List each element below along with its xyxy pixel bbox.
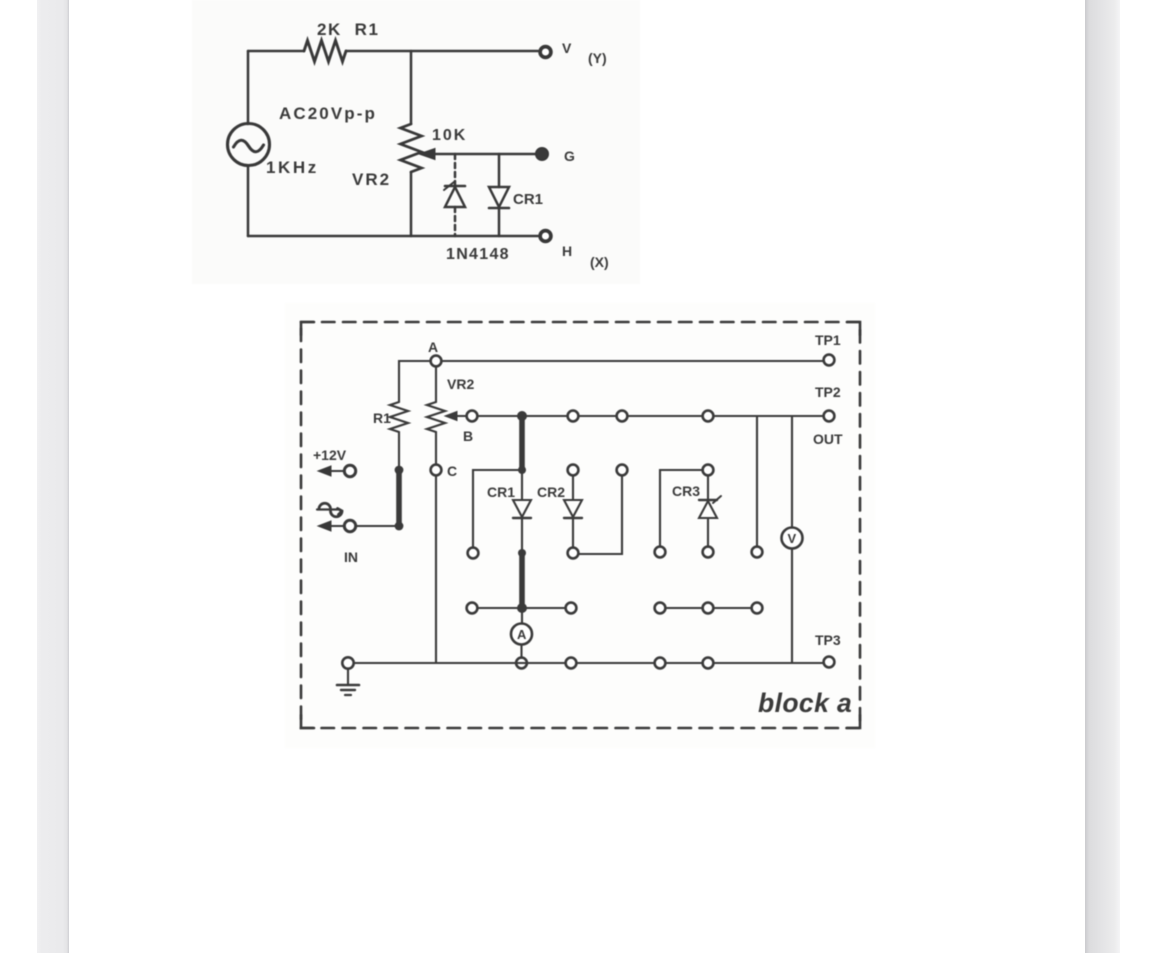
svg-text:10K: 10K [432, 127, 467, 144]
diode CR3 (zener, pointing up) [699, 476, 721, 547]
svg-text:R1: R1 [373, 410, 391, 426]
wire: TP2 rail [478, 415, 824, 417]
svg-text:B: B [463, 428, 473, 444]
junction dot meter row [517, 603, 527, 613]
post right row 2 [703, 603, 714, 614]
wire: VR2 bottom to bottom rail [410, 172, 413, 236]
post CR3 top [703, 465, 714, 476]
wire: node C down to ground rail [435, 476, 437, 663]
svg-text:CR2: CR2 [537, 484, 565, 500]
svg-text:A: A [428, 339, 438, 355]
ground terminal [342, 657, 353, 668]
post on TP2 rail [568, 411, 579, 422]
post on TP2 rail [617, 411, 628, 422]
wire: ground rail TP3 [354, 662, 824, 664]
svg-text:TP2: TP2 [815, 384, 841, 400]
svg-text:2K R1: 2K R1 [317, 20, 380, 39]
diode CR1 [513, 470, 531, 549]
ammeter A [511, 624, 532, 645]
wire: meter row [472, 607, 571, 609]
potentiometer VR2 [427, 402, 445, 432]
svg-text:CR3: CR3 [672, 483, 700, 499]
svg-text:(X): (X) [590, 254, 609, 270]
dashed border of block a [301, 322, 860, 728]
wire: bypass left of CR1 [473, 470, 522, 547]
wire: right row of posts [660, 607, 757, 609]
svg-text:CR1: CR1 [487, 484, 515, 500]
voltmeter V [782, 528, 803, 549]
terminal V [540, 47, 551, 58]
jumper: thick bar CR1 bottom to meter row [519, 553, 525, 607]
post ground rail [655, 658, 666, 669]
potentiometer VR2 (10K) [401, 124, 422, 172]
wire: top rail A to TP1 [441, 360, 824, 362]
jumper: thick bar node B rail to CR1 top [519, 416, 525, 468]
svg-text:CR1: CR1 [513, 191, 543, 208]
post CR2 bypass top [617, 465, 628, 476]
wire: IN terminal to jumper [356, 525, 399, 527]
terminal IN with arrow [318, 520, 356, 531]
AC source V1 [228, 124, 270, 166]
wire: node A down to VR2 [435, 366, 437, 402]
junction dot CR1 bottom [518, 549, 526, 557]
jumper: thick bar R1 bottom to IN wire [396, 470, 402, 526]
node C [431, 465, 442, 476]
wire: top rail right segment to terminal V [346, 50, 538, 53]
svg-text:block a: block a [758, 688, 852, 718]
junction dot CR1 top [518, 466, 526, 474]
svg-text:V: V [562, 40, 572, 56]
wire: CR2 bypass right [579, 476, 622, 554]
svg-text:G: G [564, 148, 575, 164]
post right row 1 [655, 603, 666, 614]
AC input sine symbol [317, 503, 342, 516]
node B [467, 411, 478, 422]
wire: voltmeter to ground rail [791, 549, 793, 663]
post meter row left [467, 603, 478, 614]
wire: node A to R1 top [399, 361, 431, 402]
post CR2 top [568, 465, 579, 476]
svg-text:IN: IN [344, 549, 358, 565]
wire: left vertical from top wire to AC source [247, 51, 250, 124]
svg-text:V: V [788, 531, 797, 546]
VR2 wiper arrow [419, 149, 536, 160]
svg-text:OUT: OUT [813, 431, 843, 447]
wire: dot to ammeter [521, 610, 523, 623]
resistor R1 [390, 402, 408, 432]
svg-text:1N4148: 1N4148 [446, 246, 510, 263]
post ground rail [566, 658, 577, 669]
post right row 3 [752, 603, 763, 614]
post column bottom [752, 547, 763, 558]
wire: VR2 bottom to node C [435, 432, 437, 465]
junction dot [395, 466, 404, 475]
svg-text:C: C [447, 463, 457, 479]
junction dot TP2 rail [517, 411, 527, 421]
post CR2 bottom [568, 548, 579, 559]
svg-text:(Y): (Y) [588, 50, 607, 66]
post ground rail below ammeter [516, 658, 527, 669]
wire: post column from TP2 rail [756, 416, 758, 546]
terminal TP3 [824, 657, 835, 668]
diode CR1 (right, pointing down) [489, 154, 509, 236]
ground symbol [337, 669, 359, 695]
svg-text:1KHz: 1KHz [266, 158, 319, 177]
post on TP2 rail [703, 411, 714, 422]
svg-text:TP1: TP1 [815, 332, 841, 348]
svg-text:TP3: TP3 [815, 632, 841, 648]
junction dot [395, 522, 404, 531]
wire: AC source to bottom wire [247, 166, 250, 236]
terminal TP1 [824, 355, 835, 366]
diode CR2 [564, 476, 582, 548]
wire: bottom rail [248, 235, 538, 238]
post CR3 bypass bottom [655, 547, 666, 558]
wire: voltmeter column from TP2 rail [791, 416, 793, 527]
wire: ammeter to ground rail [520, 645, 522, 658]
node A [431, 356, 442, 367]
VR2 wiper arrow to node B [445, 412, 466, 421]
svg-text:VR2: VR2 [447, 376, 474, 392]
wire: R1 bottom [398, 432, 400, 466]
wire: CR3 bypass left [660, 470, 703, 546]
post meter row right [566, 603, 577, 614]
svg-text:H: H [562, 243, 572, 259]
terminal TP2 [824, 411, 835, 422]
post CR3 bottom [703, 547, 714, 558]
svg-text:AC20Vp-p: AC20Vp-p [279, 104, 377, 123]
post bypass left [468, 548, 479, 559]
svg-text:VR2: VR2 [352, 170, 391, 189]
svg-text:+12V: +12V [313, 447, 347, 463]
terminal H [540, 231, 551, 242]
terminal +12V with arrow [318, 465, 356, 476]
post ground rail [703, 658, 714, 669]
resistor R1 (2K) [304, 41, 346, 62]
terminal G [536, 148, 548, 160]
wire: top rail left segment [248, 50, 304, 53]
svg-text:A: A [517, 627, 527, 642]
wire: junction drop from top rail [410, 51, 413, 124]
diode D1 (left, pointing up) [444, 154, 465, 236]
